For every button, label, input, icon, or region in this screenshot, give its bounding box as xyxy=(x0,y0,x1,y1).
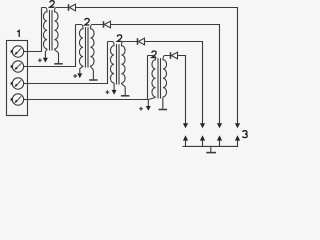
output wire from D2 to spark gap 2 xyxy=(111,25,220,125)
generator channel 2 symbol xyxy=(12,61,23,72)
diode D2 xyxy=(103,21,105,28)
transformer T4 label 2 xyxy=(152,51,157,58)
ground at T1 secondary bottom xyxy=(54,49,58,63)
ground at T3 secondary bottom xyxy=(121,83,125,95)
current direction arrow with polarity at T2 primary bottom xyxy=(80,66,83,74)
generator channel 1 symbol xyxy=(12,46,23,57)
transformer T3 core xyxy=(117,44,120,84)
transformer T2 label 2 xyxy=(85,19,90,26)
transformer T2 secondary winding xyxy=(90,25,103,66)
transformer T3 primary winding xyxy=(108,42,115,83)
spark gap 4 lower electrode arrow xyxy=(183,135,188,140)
transformer T1 label 2 xyxy=(50,1,55,8)
plus polarity mark at T2 xyxy=(73,74,77,78)
diode D4 xyxy=(170,52,172,59)
plus polarity mark at T4 xyxy=(139,107,143,111)
current direction arrow with polarity at T1 primary bottom xyxy=(45,49,47,58)
diode D1 xyxy=(68,4,70,11)
spark gap 1 lower electrode arrow xyxy=(235,135,240,140)
spark gap 4 upper electrode arrow xyxy=(183,123,188,128)
ground at T4 secondary bottom xyxy=(162,97,164,109)
plus polarity mark at T1 xyxy=(38,58,42,62)
transformer T4 secondary winding xyxy=(163,56,171,97)
transformer T4 core xyxy=(158,58,161,98)
transformer T1 core xyxy=(50,10,53,50)
wire from generator output 3 to transformer T3 primary xyxy=(24,42,108,84)
transformer T2 core xyxy=(86,27,89,67)
spark gap 1 upper electrode arrow xyxy=(235,123,240,128)
transformer T2 primary winding xyxy=(76,25,84,66)
output wire from D1 to spark gap 1 xyxy=(76,8,238,125)
transformer T1 primary winding xyxy=(42,8,48,49)
ground at T2 secondary bottom xyxy=(90,66,93,79)
spark gap 3 lower electrode arrow xyxy=(200,135,205,140)
pulse generator block 1 xyxy=(7,41,28,116)
current direction arrow with polarity at T3 primary bottom xyxy=(113,83,115,90)
ground at output bus xyxy=(210,146,212,152)
output wire from D4 to spark gap 4 xyxy=(178,56,186,125)
transformer T4 primary winding xyxy=(148,56,156,97)
plus polarity mark at T3 xyxy=(106,90,110,94)
current direction arrow with polarity at T4 primary bottom xyxy=(148,97,155,107)
generator channel 3 symbol xyxy=(12,78,23,89)
wire from generator output 2 to transformer T2 primary xyxy=(24,25,76,67)
generator channel 4 symbol xyxy=(12,94,23,105)
label 1 xyxy=(17,31,19,38)
wire from generator output 4 to transformer T4 primary xyxy=(24,56,148,100)
common output bus xyxy=(183,145,239,147)
output wire from D3 to spark gap 3 xyxy=(145,42,203,125)
transformer T3 secondary winding xyxy=(121,42,137,83)
label 3 xyxy=(243,131,248,138)
spark gap 3 upper electrode arrow xyxy=(200,123,205,128)
wire from generator output 1 to transformer T1 primary xyxy=(24,8,42,52)
spark gap 2 upper electrode arrow xyxy=(217,123,222,128)
spark gap 2 lower electrode arrow xyxy=(217,135,222,140)
transformer T1 secondary winding xyxy=(54,8,68,49)
diode D3 xyxy=(137,38,139,45)
transformer T3 label 2 xyxy=(117,35,122,42)
